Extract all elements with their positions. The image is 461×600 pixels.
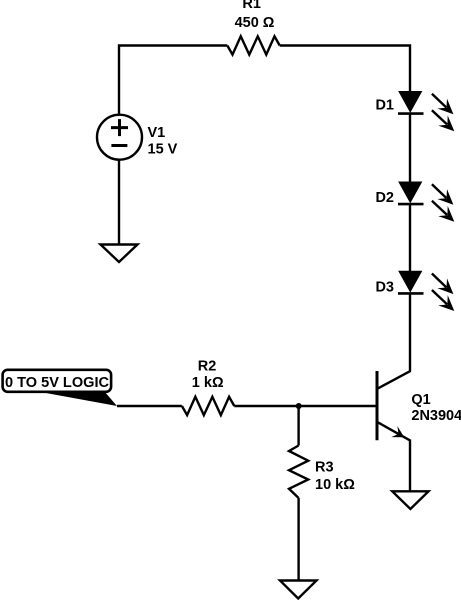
LED D1 <box>399 92 422 112</box>
resistor R3 <box>289 446 308 499</box>
LED D3 <box>399 271 422 291</box>
svg-text:10 kΩ: 10 kΩ <box>315 477 355 493</box>
junction node <box>296 403 302 409</box>
svg-text:1 kΩ: 1 kΩ <box>192 375 224 391</box>
svg-text:R1: R1 <box>242 0 261 12</box>
wire emitter to ground <box>409 440 411 491</box>
svg-text:0 TO 5V LOGIC: 0 TO 5V LOGIC <box>5 375 110 391</box>
svg-text:D3: D3 <box>375 280 394 296</box>
svg-text:D1: D1 <box>375 98 394 114</box>
wire junction to R3 <box>297 406 299 446</box>
wire D1-D2 <box>409 114 411 182</box>
svg-text:2N3904: 2N3904 <box>411 408 461 424</box>
svg-text:R3: R3 <box>315 459 334 475</box>
transistor Q1 <box>377 371 411 441</box>
LED D2 arrows <box>432 184 454 222</box>
svg-text:Q1: Q1 <box>411 392 430 408</box>
svg-text:450 Ω: 450 Ω <box>235 15 275 31</box>
wire D3 to collector <box>409 293 411 371</box>
svg-text:R2: R2 <box>198 359 217 375</box>
wire R3 to ground <box>297 498 299 581</box>
voltage source V1 <box>97 115 142 160</box>
wire top rail left segment <box>119 46 227 115</box>
wire top rail right segment <box>280 46 410 92</box>
wire D2-D3 <box>409 204 411 271</box>
resistor R1 <box>227 36 279 54</box>
resistor R2 <box>182 397 234 415</box>
flag 0 TO 5V LOGIC <box>3 370 117 406</box>
ground (R3) <box>280 581 317 599</box>
svg-text:V1: V1 <box>148 125 166 141</box>
LED D2 <box>399 182 422 202</box>
svg-text:D2: D2 <box>375 190 394 206</box>
wire R2 to base <box>234 405 375 407</box>
LED D3 arrows <box>432 274 454 312</box>
svg-text:15 V: 15 V <box>148 142 178 158</box>
LED D1 arrows <box>432 94 454 132</box>
wire flag to R2 <box>117 405 182 407</box>
wire V1 to ground <box>118 160 120 245</box>
ground (Q1 emitter) <box>392 491 428 509</box>
ground (V1) <box>101 245 138 263</box>
